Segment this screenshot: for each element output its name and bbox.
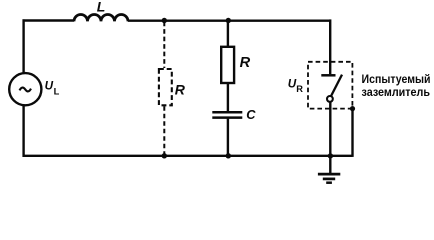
svg-text:заземлитель: заземлитель <box>362 85 431 99</box>
wire below switch <box>329 99 331 157</box>
node: dashed branch bottom junction <box>162 153 167 158</box>
wire dashed branch upper <box>163 22 165 68</box>
wire top right segment <box>128 20 331 22</box>
svg-text:U: U <box>45 80 54 93</box>
svg-text:C: C <box>246 107 256 122</box>
wire top left segment <box>23 19 75 21</box>
switch fixed contact bar <box>321 74 335 77</box>
switch hinge circle <box>327 96 333 102</box>
wire dashed branch lower <box>163 106 165 155</box>
ground bar 2 <box>323 178 335 181</box>
wire left upper <box>22 19 24 73</box>
svg-text:R: R <box>240 55 251 71</box>
ground bar 1 <box>318 173 340 176</box>
wire from enclosure corner down <box>351 109 353 157</box>
node: dashed branch top junction <box>162 18 167 23</box>
ground bar 3 <box>326 181 332 184</box>
svg-text:L: L <box>54 86 60 96</box>
node: ground junction <box>328 153 333 158</box>
svg-text:R: R <box>175 81 186 97</box>
resistor R (dashed, soil resistance) <box>159 69 172 105</box>
AC source UL circle <box>9 73 41 105</box>
svg-text:L: L <box>97 0 106 14</box>
ground stem <box>329 156 331 174</box>
wire R-C branch upper <box>227 22 229 47</box>
node: R-C branch top junction <box>226 18 231 23</box>
switch blade <box>330 75 342 98</box>
AC source tilde <box>20 88 32 92</box>
capacitor C plate top <box>212 111 242 114</box>
wire bottom <box>23 155 353 157</box>
wire left lower <box>22 105 24 157</box>
svg-text:Испытуемый: Испытуемый <box>362 72 431 86</box>
inductor L <box>74 14 128 21</box>
node: enclosure corner junction <box>350 106 355 111</box>
wire below C <box>227 119 229 155</box>
resistor R <box>221 47 234 83</box>
wire between R and C <box>227 83 229 111</box>
dashed enclosure box (tested earth electrode) <box>308 62 352 109</box>
node: R-C branch bottom junction <box>226 153 231 158</box>
capacitor C plate bottom <box>212 116 242 119</box>
wire right branch upper <box>329 19 331 74</box>
svg-text:R: R <box>296 84 303 94</box>
